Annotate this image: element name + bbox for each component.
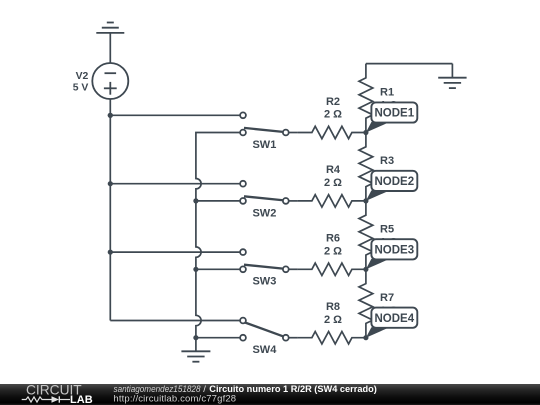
svg-text:R1: R1 (380, 87, 394, 99)
svg-text:NODE1: NODE1 (374, 108, 414, 120)
svg-text:SW1: SW1 (252, 139, 276, 151)
svg-text:R3: R3 (380, 155, 394, 167)
svg-text:R6: R6 (326, 233, 340, 245)
svg-text:R7: R7 (380, 292, 394, 304)
svg-text:5 V: 5 V (73, 82, 89, 93)
svg-text:2 Ω: 2 Ω (324, 177, 342, 189)
svg-text:2 Ω: 2 Ω (324, 314, 342, 326)
svg-text:2 Ω: 2 Ω (324, 246, 342, 258)
svg-text:SW4: SW4 (252, 344, 277, 356)
svg-text:http://circuitlab.com/c77gf28: http://circuitlab.com/c77gf28 (113, 393, 236, 404)
svg-text:LAB: LAB (70, 394, 93, 405)
svg-text:SW3: SW3 (252, 276, 276, 288)
svg-text:R5: R5 (380, 224, 394, 236)
svg-text:NODE4: NODE4 (374, 313, 414, 325)
svg-text:V2: V2 (76, 71, 89, 82)
svg-text:R8: R8 (326, 301, 340, 313)
svg-text:R2: R2 (326, 96, 340, 108)
svg-text:SW2: SW2 (252, 207, 276, 219)
svg-text:R4: R4 (326, 164, 341, 176)
svg-text:NODE3: NODE3 (374, 244, 414, 256)
svg-text:2 Ω: 2 Ω (324, 109, 342, 121)
svg-text:NODE2: NODE2 (374, 176, 414, 188)
